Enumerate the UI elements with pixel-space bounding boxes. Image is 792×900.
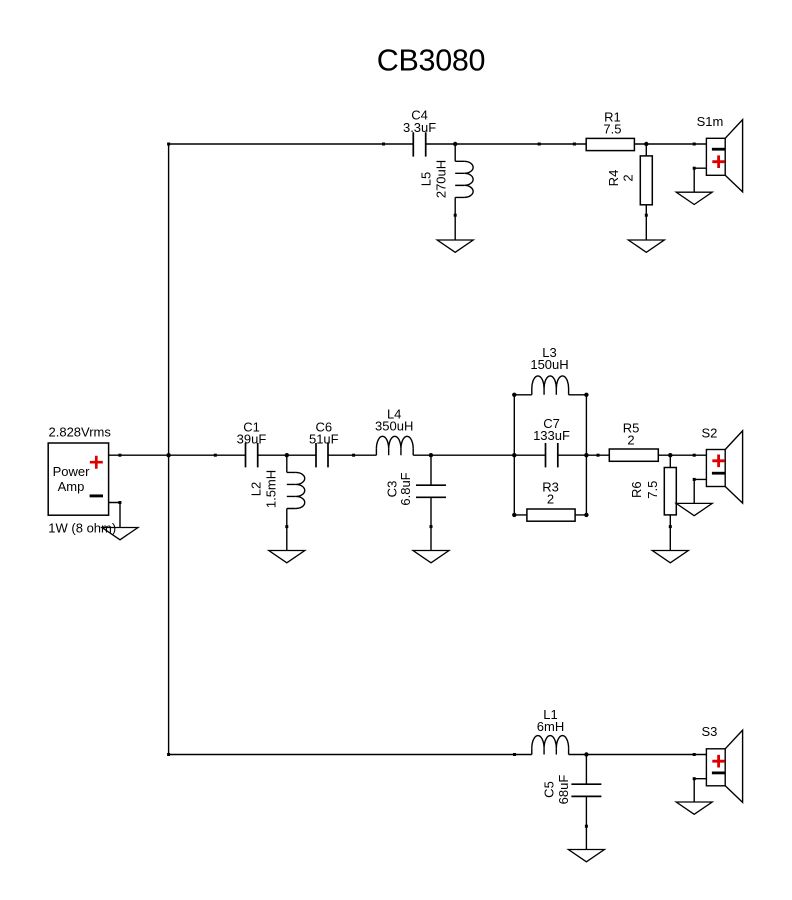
svg-text:CB3080: CB3080 [377, 43, 485, 77]
svg-text:51uF: 51uF [309, 432, 339, 447]
svg-text:L2: L2 [249, 482, 264, 496]
svg-text:2.828Vrms: 2.828Vrms [49, 424, 112, 439]
svg-text:S3: S3 [701, 724, 717, 739]
svg-text:39uF: 39uF [237, 432, 267, 447]
svg-text:Power: Power [53, 464, 91, 479]
svg-text:6mH: 6mH [537, 719, 564, 734]
svg-text:1.5mH: 1.5mH [263, 470, 278, 508]
svg-text:3.3uF: 3.3uF [403, 120, 436, 135]
svg-text:R4: R4 [606, 170, 621, 187]
svg-text:150uH: 150uH [530, 357, 568, 372]
svg-text:S1m: S1m [697, 114, 724, 129]
svg-text:Amp: Amp [58, 479, 85, 494]
svg-text:2: 2 [547, 492, 554, 507]
svg-text:7.5: 7.5 [645, 481, 660, 499]
svg-text:R6: R6 [629, 481, 644, 498]
svg-text:C5: C5 [541, 781, 556, 798]
svg-text:1W (8 ohm): 1W (8 ohm) [48, 521, 116, 536]
svg-text:68uF: 68uF [556, 775, 571, 805]
svg-text:6.8uF: 6.8uF [398, 472, 413, 505]
svg-text:7.5: 7.5 [603, 122, 621, 137]
svg-text:270uH: 270uH [434, 160, 449, 198]
svg-text:133uF: 133uF [533, 428, 570, 443]
svg-text:S2: S2 [701, 426, 717, 441]
svg-text:L5: L5 [418, 172, 433, 186]
svg-text:350uH: 350uH [375, 418, 413, 433]
svg-text:2: 2 [627, 433, 634, 448]
svg-text:2: 2 [620, 174, 635, 181]
